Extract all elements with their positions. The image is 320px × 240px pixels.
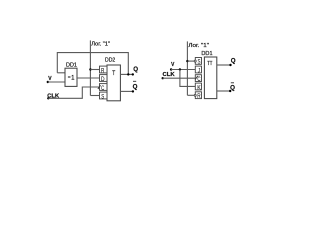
label TT inside DD1 (right)	[207, 61, 212, 67]
dynamic input slash on C (DD2)	[98, 85, 101, 89]
junction dot V branch	[179, 68, 181, 70]
terminal dot Q (left)	[132, 73, 134, 75]
wire: Лог.1 pole (left)	[89, 40, 91, 95]
wire: CLK to C pin (right)	[163, 77, 196, 79]
terminal dot Q-bar (left)	[132, 90, 134, 92]
junction dot feedback tap (left)	[127, 73, 129, 75]
pin cell K (right DD1)	[195, 83, 201, 91]
svg-text:S: S	[198, 60, 201, 66]
gate DD1 label (left)	[66, 62, 77, 68]
terminal dot CLK (left)	[47, 97, 49, 99]
wire: Лог.1 to R pin	[90, 69, 99, 71]
junction dot on S wire (right)	[186, 60, 188, 62]
pin cell D (DD2)	[100, 75, 108, 83]
wire: Q-bar output (left)	[120, 90, 133, 92]
pin cell J (right DD1)	[195, 66, 201, 74]
label =1 inside DD1	[68, 75, 75, 81]
pin cell S (DD2)	[100, 92, 108, 100]
svg-text:Q: Q	[133, 84, 138, 91]
svg-text:K: K	[197, 85, 201, 91]
terminal dot CLK (right)	[162, 77, 164, 79]
svg-text:V: V	[171, 62, 175, 68]
wire: V to DD1 lower input	[48, 81, 65, 83]
wire: V branch down to K pin	[180, 70, 195, 87]
svg-text:D: D	[101, 77, 105, 83]
node Q label (right)	[231, 58, 236, 65]
terminal dot V (right)	[170, 68, 172, 70]
inversion bubble on S pin	[194, 60, 196, 62]
svg-text:J: J	[198, 68, 200, 74]
svg-text:Q: Q	[231, 58, 236, 65]
wire: Лог.1 to R pin (right)	[187, 94, 194, 96]
node Q-bar label (right)	[230, 83, 235, 92]
svg-text:R: R	[197, 94, 201, 100]
terminal dot V (left)	[47, 81, 49, 83]
pin cell C (DD2)	[100, 84, 108, 92]
wire: Q output (right)	[217, 64, 231, 66]
node Лог.1 label (right)	[188, 43, 209, 49]
gate DD1 XOR box	[65, 68, 77, 86]
label T inside DD2	[112, 71, 115, 77]
svg-text:Лог. "1": Лог. "1"	[188, 43, 209, 49]
svg-text:T: T	[112, 71, 115, 77]
node Q label (left)	[133, 66, 138, 73]
wire: CLK to C pin (left)	[48, 87, 99, 98]
junction dot on R wire (left)	[89, 68, 91, 70]
node Q-bar label (left)	[133, 81, 138, 90]
wire: Лог.1 to S pin (right)	[187, 60, 194, 62]
terminal dot Q-bar (right)	[229, 90, 231, 92]
flip-flop DD2 label	[105, 57, 115, 63]
wire: DD1 output to D pin	[77, 77, 100, 79]
svg-text:DD2: DD2	[105, 57, 115, 63]
inversion bubble on R pin	[194, 94, 196, 96]
pin cell R (DD2)	[100, 66, 108, 74]
pin cell R (right DD1)	[195, 92, 201, 100]
node V (left)	[48, 76, 52, 82]
svg-text:Q: Q	[230, 84, 235, 91]
wire: Лог.1 to S pin	[90, 95, 99, 97]
dynamic input slash on C (right DD1)	[195, 76, 198, 80]
wire: Лог.1 pole (right)	[186, 41, 188, 95]
flip-flop DD1 label (right)	[201, 51, 212, 57]
node CLK (right)	[163, 72, 175, 78]
wire: V to J pin	[171, 69, 195, 71]
node V (right)	[171, 62, 175, 68]
wire: Q output (left)	[120, 73, 133, 75]
pin cell C (right DD1)	[195, 75, 201, 83]
terminal dot Q (right)	[229, 64, 231, 66]
node CLK (left)	[47, 93, 59, 99]
flip-flop DD1 main body (right)	[204, 57, 216, 99]
svg-text:C: C	[197, 77, 201, 83]
svg-text:DD1: DD1	[201, 51, 212, 57]
svg-text:Лог. "1": Лог. "1"	[91, 42, 110, 48]
svg-text:S: S	[101, 94, 104, 100]
svg-text:TT: TT	[207, 61, 212, 67]
svg-text:Q: Q	[133, 66, 138, 73]
wire: feedback into DD1 upper input	[57, 72, 65, 74]
svg-text:R: R	[101, 68, 105, 74]
wire: feedback top rail	[57, 53, 128, 75]
svg-text:DD1: DD1	[66, 62, 77, 68]
pin cell S (right DD1)	[195, 58, 201, 66]
wire: Q-bar output (right)	[217, 90, 230, 92]
svg-text:CLK: CLK	[163, 72, 175, 78]
svg-text:C: C	[101, 86, 105, 92]
node Лог.1 label (left)	[91, 42, 110, 48]
flip-flop DD2 main body	[107, 65, 120, 101]
